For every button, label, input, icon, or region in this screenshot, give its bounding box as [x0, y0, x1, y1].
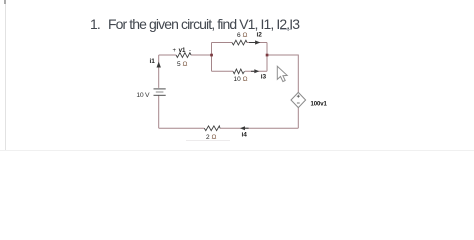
- svg-text:i1: i1: [150, 58, 156, 65]
- svg-text:-: -: [189, 48, 191, 54]
- svg-text:10 V: 10 V: [136, 92, 150, 99]
- svg-text:6 Ω: 6 Ω: [237, 32, 247, 39]
- svg-text:10 Ω: 10 Ω: [234, 76, 248, 83]
- svg-text:5 Ω: 5 Ω: [177, 61, 187, 68]
- svg-text:i4: i4: [242, 132, 248, 139]
- svg-text:100v1: 100v1: [311, 101, 328, 107]
- svg-text:i2: i2: [257, 32, 263, 39]
- svg-text:2 Ω: 2 Ω: [206, 134, 216, 141]
- svg-text:v1: v1: [179, 47, 186, 54]
- svg-text:+: +: [173, 48, 177, 54]
- svg-text:i3: i3: [261, 73, 267, 80]
